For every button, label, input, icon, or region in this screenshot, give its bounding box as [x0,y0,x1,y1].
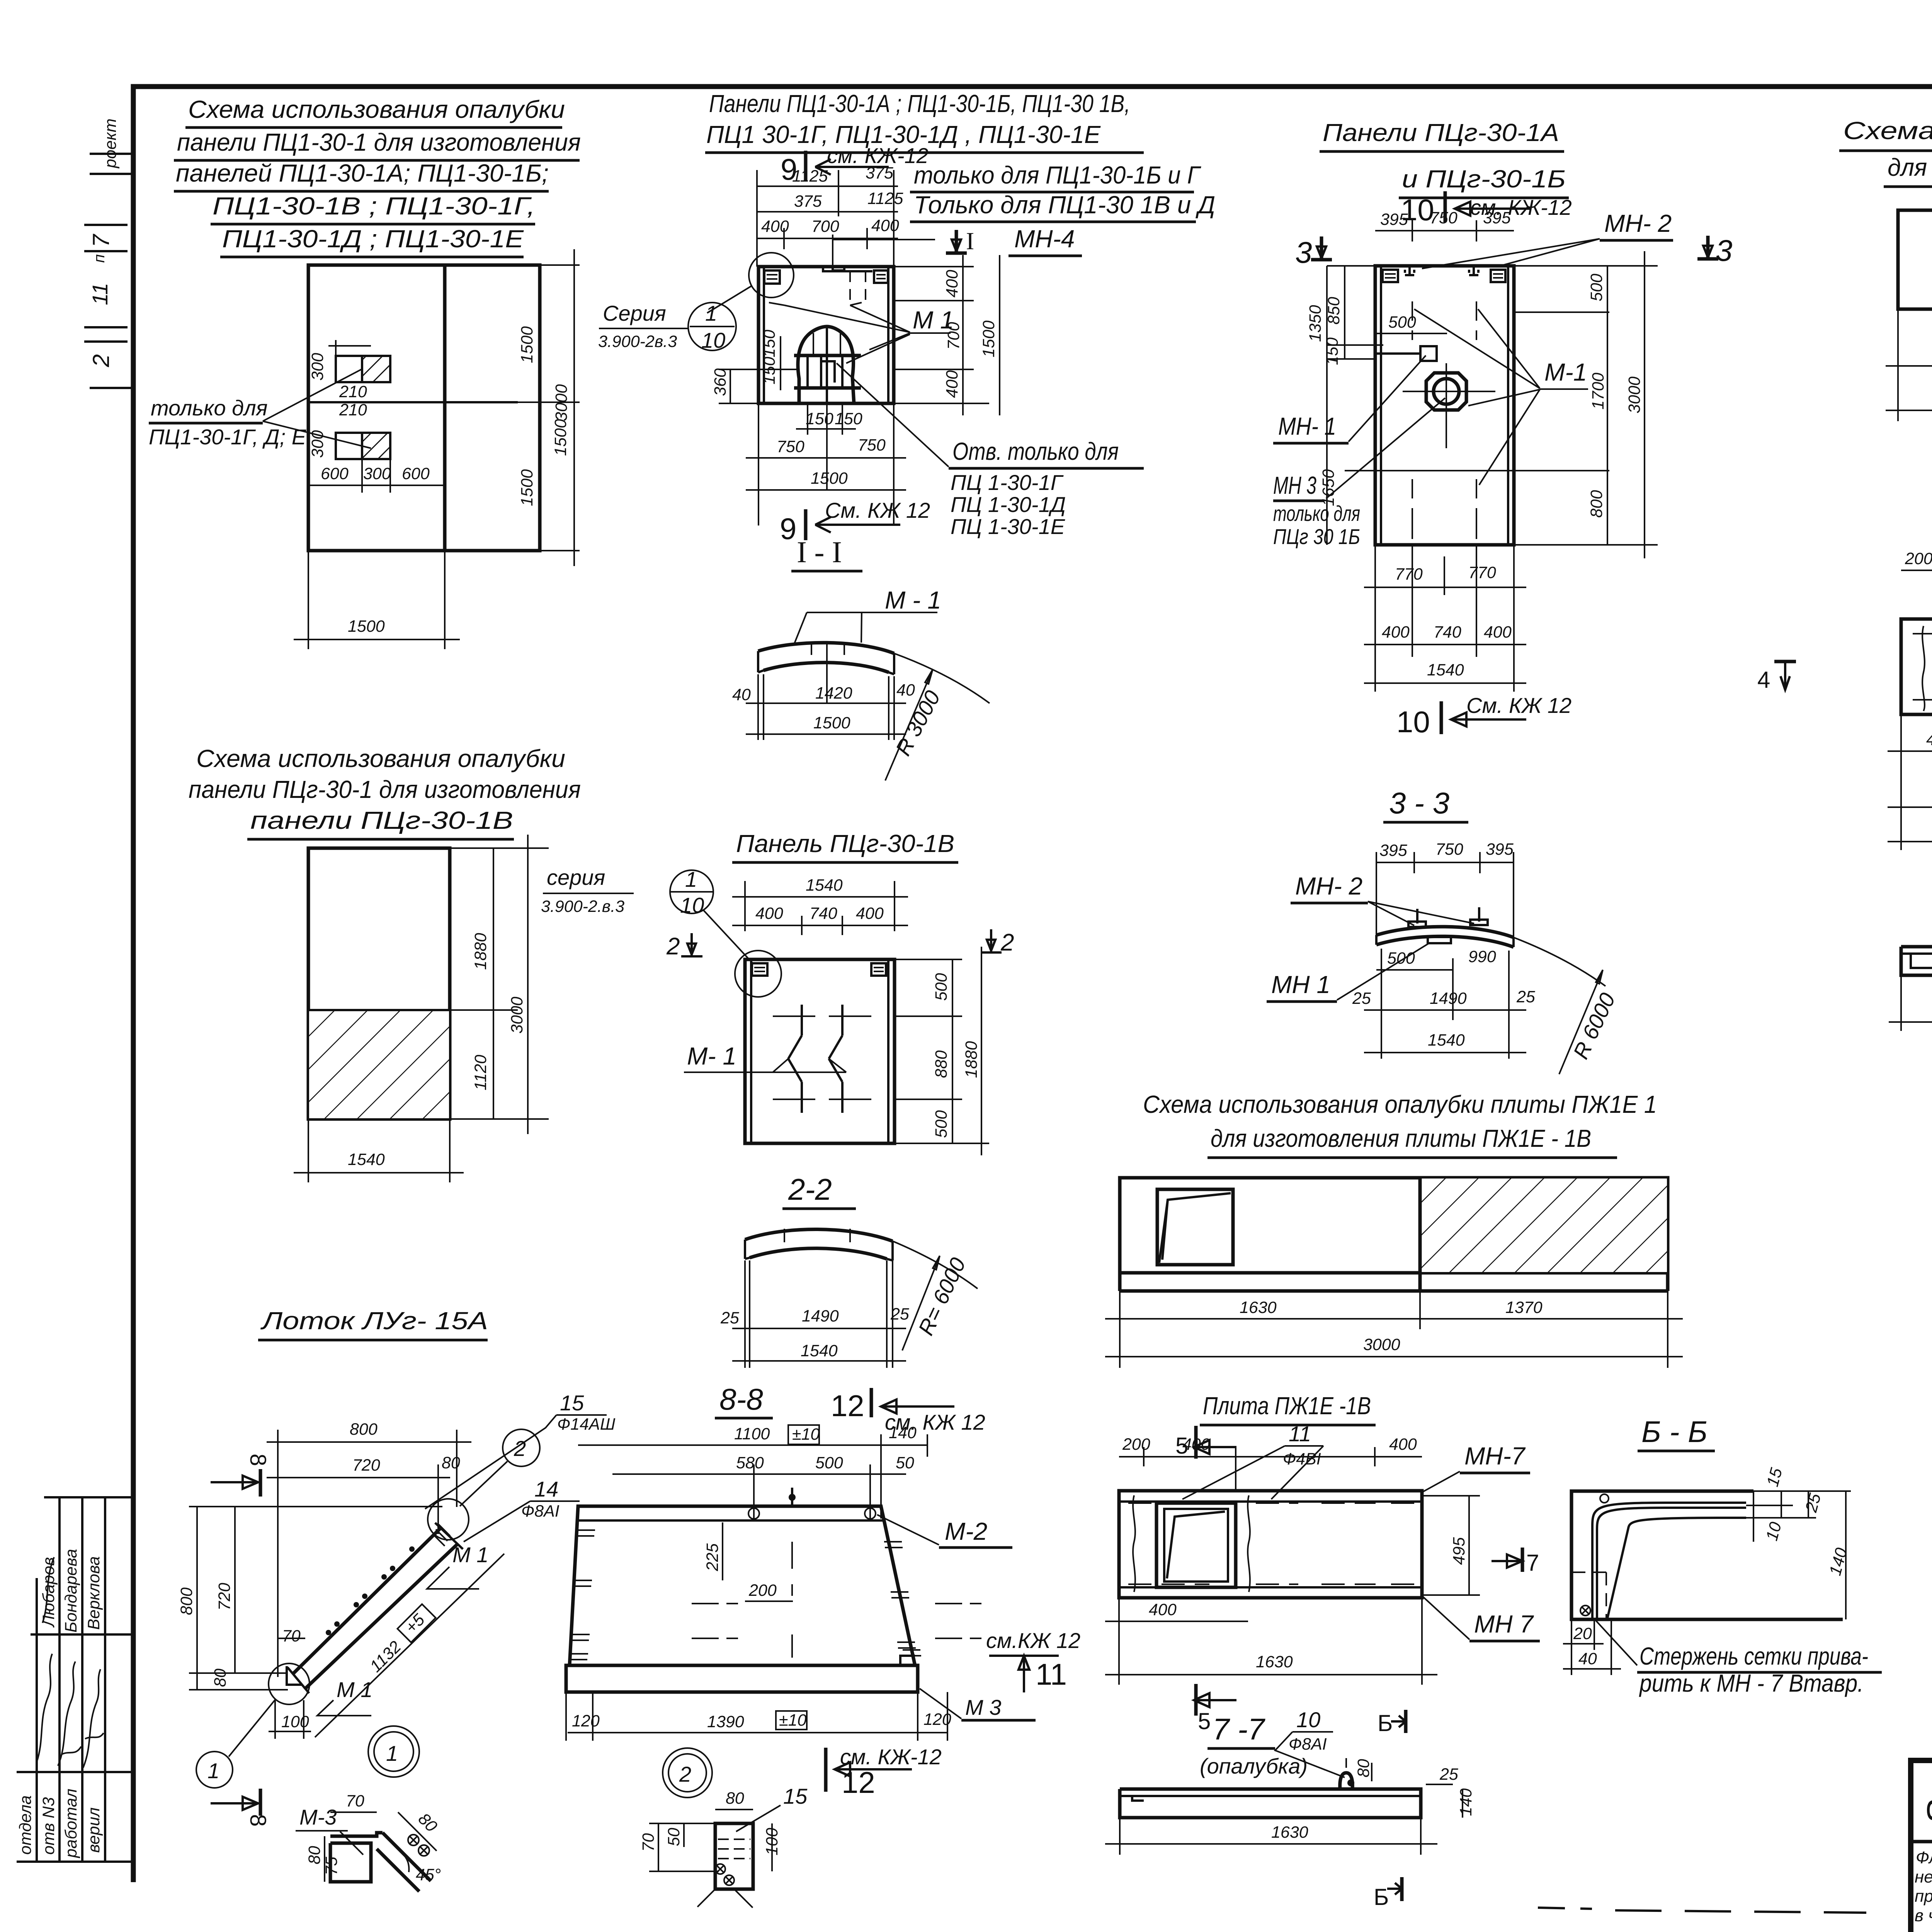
svg-text:МН 1: МН 1 [1271,971,1330,998]
svg-text:600: 600 [402,464,430,483]
svg-text:отдела: отдела [16,1795,35,1855]
signatures scribbles [37,1654,52,1762]
svg-text:750: 750 [1430,209,1458,227]
top dims [1119,1456,1422,1458]
svg-text:СОЮЗВОДОКАНАЛПРОЕКТ: СОЮЗВОДОКАНАЛПРОЕКТ [1926,1795,1932,1826]
bottom dims [1900,714,1902,850]
svg-text:производительностью 300 куб.м: производительностью 300 куб.м [1915,1887,1932,1906]
svg-text:1350: 1350 [1306,305,1325,342]
top embeds [1383,270,1398,282]
svg-text:ПЦг 30 1Б: ПЦг 30 1Б [1273,524,1360,549]
bottom dims [1571,1619,1572,1675]
svg-text:нефтесодержащих сточных вод: нефтесодержащих сточных вод [1915,1867,1932,1886]
svg-text:МН 3: МН 3 [1273,471,1316,499]
dims [1897,309,1899,421]
svg-text:МН 7: МН 7 [1474,1610,1534,1638]
svg-text:Верклова: Верклова [85,1556,103,1630]
svg-text:8: 8 [245,1454,270,1466]
slab outline [1571,1491,1843,1619]
svg-text:1370: 1370 [1505,1298,1543,1317]
svg-text:3 - 3: 3 - 3 [1389,786,1449,820]
svg-text:Только для ПЦ1-30 1В и Д: Только для ПЦ1-30 1В и Д [914,191,1215,219]
bottom dims [1118,1598,1120,1685]
svg-text:1540: 1540 [1427,661,1464,679]
SEC88 [566,1382,1080,1799]
flag 7 [1521,1548,1524,1572]
SECBB [1563,1415,1882,1697]
svg-text:Панели ПЦг-30-1А: Панели ПЦг-30-1А [1323,119,1559,146]
svg-text:роект: роект [101,119,120,169]
svg-text:Панель ПЦг-30-1В: Панель ПЦг-30-1В [736,830,954,857]
TITLEBLOCK [1911,1760,1932,1932]
svg-text:2: 2 [666,933,680,960]
svg-text:990: 990 [1468,947,1496,966]
circle 1 label bottom [196,1752,233,1788]
svg-text:400: 400 [755,904,783,923]
svg-text:720: 720 [352,1456,380,1475]
horizontal line 1700 level [1345,470,1609,471]
svg-text:100: 100 [281,1713,309,1731]
SEC22 [720,1172,978,1368]
svg-text:МН- 2: МН- 2 [1604,209,1672,237]
svg-text:11: 11 [1036,1657,1067,1691]
svg-text:1390: 1390 [707,1713,744,1731]
dims below [1376,969,1453,971]
svg-text:ПЦ1-30-1Г, Д; Е: ПЦ1-30-1Г, Д; Е [149,425,306,449]
svg-text:в час из сборного железобетон: в час из сборного железобетона [1915,1906,1932,1925]
svg-text:395: 395 [1486,840,1514,859]
flag 5 bottom [1194,1684,1198,1716]
top embeds [764,270,780,284]
svg-text:25: 25 [1439,1765,1459,1784]
svg-text:М 3: М 3 [965,1695,1001,1719]
svg-text:и ПЦг-30-1Б: и ПЦг-30-1Б [1402,165,1566,193]
225 dim [722,1522,723,1580]
svg-text:МН-4: МН-4 [1014,225,1075,253]
svg-text:2: 2 [514,1436,526,1461]
svg-text:400: 400 [1389,1435,1417,1454]
lifting loop bump [1340,1773,1353,1789]
svg-text:80: 80 [442,1454,460,1472]
svg-text:400: 400 [1926,730,1932,749]
left dims [1344,266,1345,359]
svg-text:2: 2 [1000,929,1014,956]
right dims [1753,1491,1754,1542]
thin bar [1901,947,1932,975]
svg-text:Cм. КЖ 12: Cм. КЖ 12 [1466,693,1571,718]
horizontal ext line at top end [189,1506,442,1507]
arch opening [798,327,854,403]
internal bars [794,354,861,357]
svg-text:Стержень сетки прива-: Стержень сетки прива- [1639,1642,1868,1670]
svg-text:750: 750 [858,436,886,454]
svg-text:М-3: М-3 [299,1805,337,1829]
LOTOK [177,1307,808,1908]
svg-text:400: 400 [1149,1600,1177,1619]
svg-text:Серия: Серия [603,301,666,325]
svg-text:80: 80 [305,1846,324,1864]
svg-text:1700: 1700 [1589,372,1607,410]
svg-text:45°: 45° [416,1866,441,1884]
200 dim [745,1600,793,1602]
svg-text:50: 50 [665,1828,683,1846]
svg-text:150: 150 [1323,337,1342,365]
svg-text:1880: 1880 [962,1041,981,1078]
svg-text:8: 8 [245,1814,270,1827]
curved slab [745,1229,893,1241]
dashed verticals [1412,301,1413,340]
svg-text:1880: 1880 [471,933,490,970]
svg-text:600: 600 [321,464,349,483]
detail 2 (bottom middle) [663,1748,712,1798]
svg-text:50: 50 [896,1454,914,1472]
svg-text:210: 210 [339,383,367,401]
PLITY [1757,479,1932,901]
svg-text:500: 500 [1388,313,1416,332]
svg-text:1630: 1630 [1240,1298,1277,1317]
svg-text:1120: 1120 [471,1054,490,1090]
svg-text:Б: Б [1374,1884,1389,1910]
svg-text:ПЦ 1-30-1Е: ПЦ 1-30-1Е [951,514,1065,539]
title block outer [1911,1760,1932,1932]
svg-text:300: 300 [363,464,391,483]
svg-text:I: I [966,227,974,255]
svg-text:Схема использования опалуб: Схема использования опалубки [188,95,565,123]
svg-text:1125: 1125 [792,167,828,185]
svg-text:Ф4ВI: Ф4ВI [1283,1450,1321,1468]
svg-text:3: 3 [1716,233,1732,267]
svg-text:200: 200 [1905,549,1932,568]
bar [1901,619,1932,714]
svg-text:25: 25 [1516,988,1536,1006]
svg-text:2: 2 [679,1762,691,1786]
right dim 495 [1422,1495,1480,1497]
SCHEMA3 [1839,117,1932,479]
svg-text:рить к МН - 7 Втавр.: рить к МН - 7 Втавр. [1639,1669,1864,1697]
svg-text:1500: 1500 [348,617,385,636]
svg-text:40: 40 [896,681,915,699]
svg-text:200: 200 [748,1581,777,1600]
dim rows above panel [757,185,898,187]
svg-text:750: 750 [777,437,804,456]
svg-text:1630: 1630 [1256,1653,1293,1671]
svg-text:Ф8АI: Ф8АI [1289,1735,1327,1753]
thin bar [1120,1789,1421,1818]
svg-text:40: 40 [732,685,751,704]
svg-text:720: 720 [215,1583,234,1611]
svg-text:1630: 1630 [1271,1823,1308,1842]
svg-text:400: 400 [1484,623,1512,641]
svg-text:3000: 3000 [1363,1335,1400,1354]
svg-text:1125: 1125 [867,189,904,208]
SEC77 [1105,1708,1475,1910]
bottom faded dashes [1538,1908,1592,1909]
formwork plan [1120,1178,1668,1273]
svg-text:1500: 1500 [813,714,850,732]
500 dim inside [1375,333,1447,334]
МН-4 top notch [833,267,844,270]
svg-text:395: 395 [1380,210,1408,229]
svg-text:ПЦ 1-30-1Г: ПЦ 1-30-1Г [951,470,1064,495]
svg-text:для изготовления плит ПЖ1Е-: для изготовления плит ПЖ1Е-1А; ПЖ1Е-1Б. [1888,153,1932,181]
svg-text:740: 740 [810,904,837,923]
top dims [578,1444,927,1446]
dims [1119,1291,1121,1368]
svg-text:1: 1 [386,1741,398,1765]
svg-text:1500: 1500 [551,419,570,456]
svg-text:1540: 1540 [806,876,843,895]
svg-text:9: 9 [780,512,796,546]
svg-text:М-1: М-1 [1544,358,1587,386]
top dims [1376,862,1514,863]
svg-text:120: 120 [572,1712,600,1730]
label [1596,1621,1637,1665]
SEC44 [1889,842,1932,1033]
right dims [450,847,549,849]
circle 1/10 [670,870,713,913]
svg-text:1100: 1100 [734,1425,770,1443]
svg-text:см.КЖ 12: см.КЖ 12 [986,1628,1080,1653]
1630 dim [1119,1818,1121,1855]
svg-text:1650: 1650 [1319,469,1338,506]
svg-text:140: 140 [889,1423,917,1442]
svg-text:1500: 1500 [518,469,536,506]
ladder ticks on slopes [570,1530,595,1660]
formwork plan long bar [1898,210,1932,309]
svg-text:Б: Б [1378,1710,1393,1736]
svg-text:3000: 3000 [552,384,571,421]
SCHEMA4 [1105,1090,1683,1368]
top dims [1375,230,1514,231]
svg-text:500: 500 [1587,274,1606,301]
radius [893,1241,978,1289]
svg-text:Схема использования опалу: Схема использования опалубки плиты ПЖ1Е-… [1843,117,1932,145]
svg-text:10: 10 [1396,705,1430,739]
center dashed lines [791,1542,793,1658]
svg-text:80: 80 [211,1668,230,1687]
top dims [1901,570,1932,571]
svg-text:700: 700 [944,322,963,350]
svg-text:Cм. КЖ 12: Cм. КЖ 12 [825,498,930,522]
svg-text:Ф8АI: Ф8АI [521,1502,560,1520]
svg-text:395: 395 [1483,209,1511,227]
svg-text:360: 360 [711,368,730,396]
4 flags [1774,660,1796,663]
svg-text:120: 120 [923,1710,951,1729]
svg-text:панелей ПЦ1-30-1А; ПЦ1-30-1Б: панелей ПЦ1-30-1А; ПЦ1-30-1Б; [176,159,549,187]
svg-text:75: 75 [322,1856,341,1875]
svg-text:Бондарева: Бондарева [62,1549,80,1633]
arc section with tabs [1376,927,1514,937]
svg-text:верил: верил [85,1808,103,1853]
svg-text:40: 40 [1578,1650,1597,1668]
svg-text:7: 7 [1526,1550,1539,1576]
svg-text:Схема использования опалубки: Схема использования опалубки плиты ПЖ1Е … [1143,1090,1657,1118]
top dims 800 720 80 [277,1430,279,1677]
octagon with circle [1426,373,1466,410]
svg-text:Б - Б: Б - Б [1641,1415,1708,1449]
dims small [335,340,337,356]
svg-text:2: 2 [88,354,114,367]
panel rect [1375,266,1514,545]
svg-text:80: 80 [1354,1759,1373,1777]
2450 dim [1900,975,1902,1031]
svg-text:395: 395 [1379,841,1408,860]
svg-text:400: 400 [761,217,789,236]
svg-text:500: 500 [815,1454,843,1472]
left bottom stamp table [44,1496,131,1498]
PANELGA [1273,119,1732,739]
svg-text:МН- 2: МН- 2 [1295,872,1362,900]
SEC33 [1267,786,1620,1074]
panel outline [759,267,894,403]
svg-text:1540: 1540 [801,1342,838,1360]
svg-text:12: 12 [842,1765,875,1799]
bottom dims [568,1732,947,1733]
svg-text:150: 150 [760,357,779,384]
svg-text:3000: 3000 [508,997,526,1034]
big double circle 1 [368,1726,419,1777]
svg-text:740: 740 [1434,623,1461,641]
svg-text:1500: 1500 [980,320,998,357]
detail circles on ends [428,1499,469,1540]
svg-text:п: п [91,254,108,263]
svg-text:М- 1: М- 1 [687,1042,736,1070]
svg-text:80: 80 [726,1789,744,1808]
svg-text:Схема использования опалубк: Схема использования опалубки [196,745,565,772]
svg-text:770: 770 [1468,563,1496,582]
svg-text:300: 300 [308,430,327,458]
svg-text:1: 1 [685,867,697,891]
top dims [744,881,746,931]
svg-text:300: 300 [308,353,327,381]
MN-7 angle horizontal leg [1665,1503,1746,1508]
PLITA1V [1105,1392,1540,1734]
svg-text:25: 25 [720,1309,740,1327]
svg-text:±10: ±10 [792,1425,820,1444]
svg-text:495: 495 [1450,1537,1468,1565]
dashed box [1572,1572,1606,1619]
bottom dims [807,403,808,435]
svg-text:800: 800 [350,1420,378,1439]
PANELG1V [666,830,1014,1155]
svg-text:14: 14 [534,1477,558,1501]
svg-text:800: 800 [1587,490,1606,518]
svg-text:70: 70 [346,1792,364,1810]
svg-text:200: 200 [1122,1435,1150,1454]
svg-text:20: 20 [1573,1624,1592,1643]
svg-text:см. КЖ-12: см. КЖ-12 [840,1745,942,1769]
right dims [895,959,962,960]
formwork rectangle with hatched bottom [308,848,450,1119]
svg-text:панели ПЦг-30-1 для изготов: панели ПЦг-30-1 для изготовления [189,776,581,803]
svg-text:10: 10 [1296,1708,1320,1732]
svg-text:1500: 1500 [518,326,536,363]
end caps [435,1523,463,1549]
svg-text:400: 400 [871,216,899,235]
bottom dims [1374,545,1376,692]
svg-text:150: 150 [835,410,862,428]
svg-text:580: 580 [736,1454,764,1472]
svg-text:25: 25 [1352,989,1371,1008]
bottom small dims 600 300 600 [308,485,445,486]
svg-text:Панели ПЦ1-30-1А ; ПЦ1-30-1Б: Панели ПЦ1-30-1А ; ПЦ1-30-1Б, ПЦ1-30 1В, [709,90,1130,117]
svg-text:750: 750 [1435,840,1463,859]
radius curve and arrow [894,653,990,703]
left margin ticks [90,153,133,155]
svg-text:1: 1 [705,301,717,325]
svg-text:3: 3 [1295,235,1312,269]
embed rect [1420,346,1437,361]
svg-text:400: 400 [943,370,961,398]
svg-text:1540: 1540 [1428,1031,1465,1049]
svg-text:800: 800 [177,1587,196,1615]
svg-text:1490: 1490 [802,1307,839,1325]
svg-text:ПЦ1-30-1В ; ПЦ1-30-1Г,: ПЦ1-30-1В ; ПЦ1-30-1Г, [213,192,535,220]
svg-text:М 1: М 1 [452,1543,488,1567]
svg-text:панели ПЦ1-30-1 для изгото: панели ПЦ1-30-1 для изготовления [177,128,581,156]
svg-text:I - I: I - I [797,535,842,569]
detail circle 2 label [503,1429,540,1466]
svg-text:400: 400 [856,904,884,923]
R 6000 [1514,937,1605,986]
right dims [1514,311,1609,313]
section I mark [946,230,967,253]
svg-text:210: 210 [339,401,367,419]
PANEL1 [598,90,1215,546]
flag 5 top [1194,1426,1198,1459]
channel body (45 deg) [294,1528,440,1673]
Б flags [1404,1710,1408,1733]
svg-text:3000: 3000 [1625,376,1644,413]
top line extensions [1327,265,1375,267]
section flag 8 top [259,1469,262,1497]
small dims near bottom end [278,1638,305,1639]
wavy break lines [1133,1495,1135,1592]
svg-text:Ф14АШ: Ф14АШ [557,1415,616,1434]
svg-text:панели ПЦг-30-1В: панели ПЦг-30-1В [250,806,513,834]
svg-text:400: 400 [1182,1435,1210,1454]
svg-text:150: 150 [760,330,779,357]
svg-text:Флотатор для доочистки: Флотатор для доочистки [1916,1848,1932,1867]
dims [1345,1758,1347,1768]
svg-text:Любаров: Любаров [39,1557,58,1628]
svg-text:М - 1: М - 1 [885,586,941,614]
svg-text:работал: работал [62,1789,80,1859]
svg-text:отв N3: отв N3 [39,1797,58,1855]
svg-text:140: 140 [1457,1788,1475,1816]
svg-text:только для ПЦ1-30-1Б и Г: только для ПЦ1-30-1Б и Г [914,161,1201,189]
svg-text:400: 400 [1382,623,1410,641]
panel rect [745,959,895,1143]
svg-text:МН-7: МН-7 [1464,1442,1526,1470]
svg-text:Лоток ЛУг- 15А: Лоток ЛУг- 15А [260,1307,488,1335]
svg-text:Плита ПЖ1Е -1В: Плита ПЖ1Е -1В [1203,1392,1371,1420]
svg-text:1420: 1420 [815,684,852,702]
svg-text:для изготовления плиты П: для изготовления плиты ПЖ1Е - 1В [1211,1124,1591,1152]
svg-text:2-2: 2-2 [788,1172,832,1206]
140 dim [1753,1490,1851,1492]
svg-text:10: 10 [701,328,725,352]
hatched insert squares [336,356,362,382]
svg-text:500: 500 [932,1110,951,1138]
detail circle top-left [749,253,794,298]
bottom dim [308,1119,309,1182]
svg-text:8-8: 8-8 [719,1382,763,1416]
TOPLEFT [149,95,581,649]
right dims [518,264,580,266]
svg-text:375: 375 [794,192,822,211]
